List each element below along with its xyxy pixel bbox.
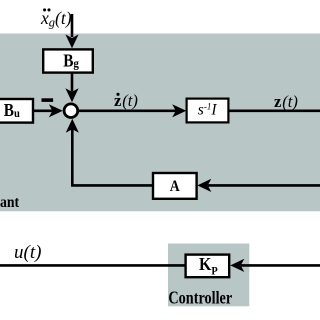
- arrowhead into Kp (left): [230, 259, 244, 272]
- svg-text:(t): (t): [122, 91, 138, 110]
- svg-text:(t): (t): [282, 92, 298, 111]
- svg-text:Controller: Controller: [168, 289, 232, 308]
- node xg(t) input label: [40, 8, 72, 30]
- wire: integrator output z(t): [229, 110, 320, 113]
- node z(t) label: [274, 92, 298, 111]
- svg-text:z: z: [274, 92, 281, 111]
- wire: u(t) from controller to left: [0, 264, 185, 267]
- arrowhead into A (left): [197, 179, 211, 192]
- block Kp: [186, 254, 230, 277]
- plant block background: [0, 34, 320, 212]
- block integrator s^-1 I: [187, 99, 229, 123]
- block Bu (cut off at left edge): [0, 99, 33, 123]
- block A: [153, 173, 197, 199]
- controller block background: [168, 244, 249, 307]
- wire: junction to integrator: [78, 110, 176, 113]
- wire: A output left then up to junction: [72, 128, 153, 185]
- block Bg: [43, 49, 93, 72]
- svg-text:Plant: Plant: [0, 194, 19, 211]
- wire: ground input vertical into Bg: [71, 14, 74, 37]
- summing junction node: [64, 104, 78, 118]
- arrowhead into Bg: [65, 34, 78, 48]
- arrowhead into junction (up): [66, 119, 79, 133]
- minus sign on Bu input to junction: [42, 98, 54, 102]
- wire: Bu to summing junction: [33, 110, 53, 113]
- node zdot(t) label: [114, 91, 138, 110]
- wire: Bg down to summing junction: [71, 73, 74, 92]
- wire: feedback from right into A: [208, 184, 320, 187]
- arrowhead into integrator: [172, 104, 186, 117]
- wire: input into Kp from right: [241, 264, 320, 267]
- arrowhead into summing junction (down): [65, 88, 78, 102]
- svg-text:A: A: [170, 178, 180, 195]
- svg-text:u(t): u(t): [14, 242, 41, 263]
- arrowhead into junction (right): [49, 104, 63, 117]
